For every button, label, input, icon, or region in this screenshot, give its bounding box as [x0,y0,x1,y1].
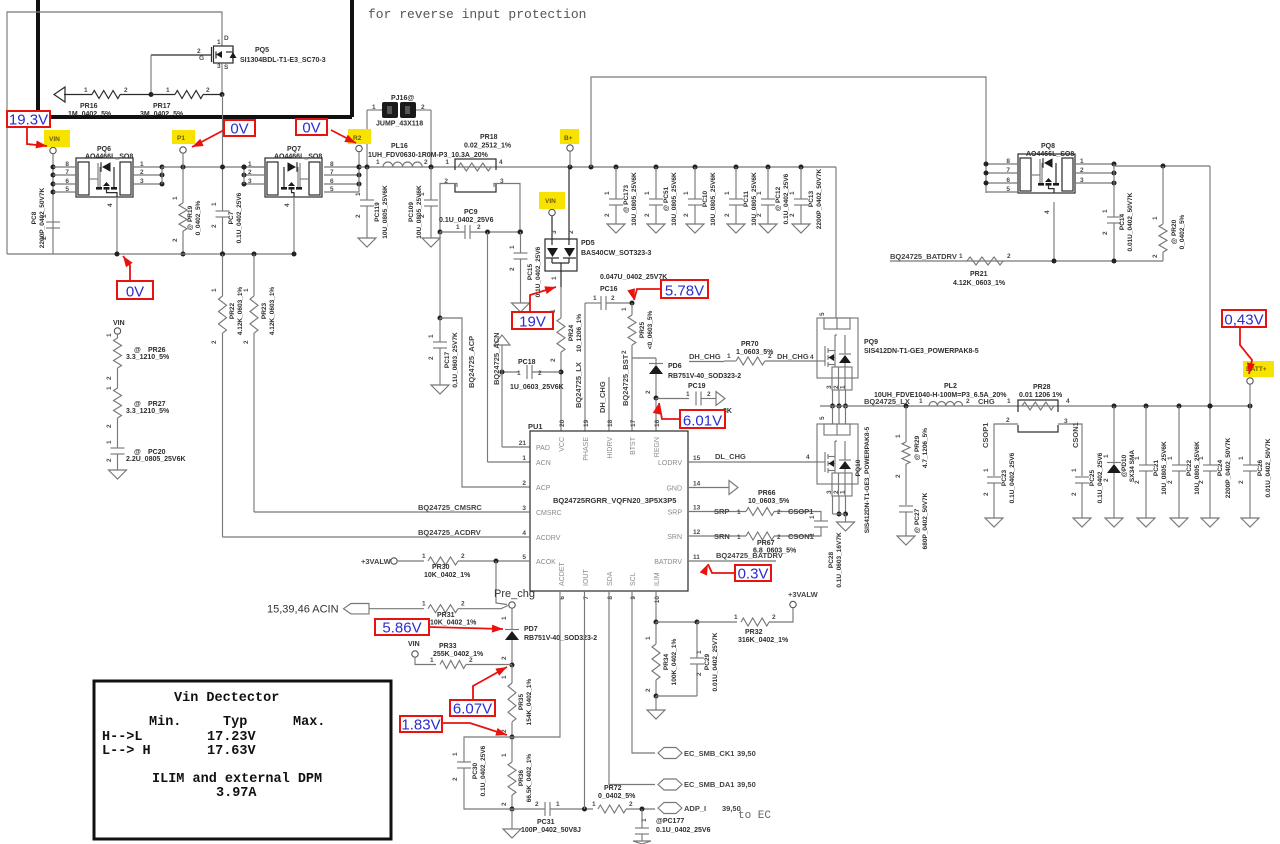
svg-text:SRN: SRN [714,532,730,541]
svg-text:PC13: PC13 [808,190,815,207]
svg-text:1: 1 [809,515,816,519]
svg-text:ADP_I: ADP_I [684,804,706,813]
callout 0.3V [735,565,771,581]
svg-text:BQ24725_BATDRV: BQ24725_BATDRV [890,252,957,261]
callout 6.07V [450,700,495,716]
svg-text:PC17: PC17 [444,351,451,368]
svg-text:ILIM and external DPM: ILIM and external DPM [152,772,322,787]
svg-text:AO4466L_SO8: AO4466L_SO8 [85,154,133,161]
svg-text:2: 2 [106,424,113,428]
svg-text:1: 1 [621,307,628,311]
svg-text:VIN: VIN [545,198,556,205]
svg-text:PR17: PR17 [153,103,171,110]
wire IOUT riser [582,807,587,812]
svg-text:@ PR20: @ PR20 [1171,219,1178,244]
svg-text:SDA: SDA [607,571,614,586]
svg-text:1: 1 [604,191,611,195]
svg-text:SI1304BDL-T1-E3_SC70-3: SI1304BDL-T1-E3_SC70-3 [240,57,326,64]
svg-text:PC24: PC24 [1217,459,1224,476]
svg-text:PC14: PC14 [1119,213,1126,230]
callout 19V [512,312,553,329]
diode PD5 BAS40CW [545,239,577,271]
svg-text:PC21: PC21 [1153,459,1160,476]
svg-text:PC30: PC30 [472,762,479,779]
diode PD10 column [1112,404,1117,409]
svg-text:<0_0603_5%: <0_0603_5% [647,311,654,350]
transistor PQ6 AO4466L_SO8 [76,158,133,197]
svg-text:0,1U_0603_25V7K: 0,1U_0603_25V7K [452,332,459,388]
svg-text:1: 1 [696,650,703,654]
svg-text:CMSRC: CMSRC [536,510,562,517]
resistor PR26 [114,338,122,368]
resistor PR22 column to ACDRV [220,252,225,257]
svg-text:SRP: SRP [714,507,729,516]
svg-text:1: 1 [1134,456,1141,460]
svg-text:0.1U_0402_25V6: 0.1U_0402_25V6 [1097,452,1104,503]
svg-text:@ PC27: @ PC27 [914,508,921,533]
svg-text:2200P_0402_50V7K: 2200P_0402_50V7K [39,188,46,249]
svg-text:H-->L: H-->L [102,730,143,745]
svg-text:2: 2 [509,267,516,271]
resistor PR28 sense [1018,400,1058,432]
svg-text:0.02_2512_1%: 0.02_2512_1% [464,143,512,150]
svg-text:10K_0402_1%: 10K_0402_1% [424,572,471,579]
svg-text:10_0603_5%: 10_0603_5% [748,498,790,505]
svg-text:18: 18 [607,419,614,427]
op-amp U1 charger IC PU1 BQ24725 [530,431,688,591]
transistor PQ5 [214,46,234,63]
svg-text:SRP: SRP [668,510,683,517]
svg-text:1: 1 [1152,216,1159,220]
resistor PR16 [64,94,92,96]
resistor PR17 [149,92,154,97]
svg-text:7: 7 [330,169,334,176]
svg-text:3: 3 [217,63,221,70]
wire VCC column PD5 to PU1 [560,287,562,318]
svg-text:4: 4 [810,354,814,361]
svg-text:@ PC12: @ PC12 [775,186,782,211]
svg-text:1M_0402_5%: 1M_0402_5% [68,111,112,118]
svg-text:2: 2 [724,213,731,217]
svg-text:@ PC51: @ PC51 [663,186,670,211]
callout 19.3V [7,111,50,127]
resistor PR67 row SRN [688,535,746,537]
capacitor PC30 loop [464,737,512,762]
svg-text:2: 2 [621,350,628,354]
svg-text:1: 1 [919,398,923,405]
svg-text:PD5: PD5 [581,240,595,247]
resistor PR29 column [904,404,909,409]
svg-text:2: 2 [421,104,425,111]
svg-text:SIS412DN-T1-GE3_POWERPAK8-5: SIS412DN-T1-GE3_POWERPAK8-5 [864,348,979,355]
svg-text:0.1U_0402_25V6: 0.1U_0402_25V6 [480,745,487,796]
svg-text:13: 13 [693,505,701,512]
svg-text:4: 4 [499,159,503,166]
callout 0,43V [1222,310,1266,327]
svg-text:154K_0402_1%: 154K_0402_1% [526,678,533,725]
net label CMSRC [254,511,530,513]
capacitor PC24 column [1208,404,1213,409]
capacitor PC17 column [439,232,441,318]
svg-text:RB751V-40_SOD323-2: RB751V-40_SOD323-2 [668,373,741,380]
svg-text:1: 1 [551,276,558,280]
svg-text:REGN: REGN [654,437,661,457]
svg-text:P1: P1 [177,135,185,142]
resistor PR31 row [369,608,424,610]
svg-text:2: 2 [501,802,508,806]
svg-text:3M_0402_5%: 3M_0402_5% [140,111,184,118]
svg-text:CSOP1: CSOP1 [981,423,990,448]
svg-text:4: 4 [522,530,526,537]
svg-text:PR25: PR25 [639,321,646,338]
svg-text:2200P_0402_50V7K: 2200P_0402_50V7K [1225,438,1232,499]
svg-text:to EC: to EC [738,810,771,822]
svg-text:0.1U_0603_16V7K: 0.1U_0603_16V7K [836,532,843,588]
svg-text:1: 1 [683,191,690,195]
svg-text:1: 1 [166,87,170,94]
svg-text:SX34 SMA: SX34 SMA [1129,450,1136,482]
net label ACDRV [223,536,531,538]
svg-text:1.83V: 1.83V [401,717,440,734]
ground ILIM [655,696,657,710]
capacitor PC177 column [640,807,645,812]
svg-text:2: 2 [966,398,970,405]
node BATT+ riser [1247,378,1253,384]
svg-text:PL2: PL2 [944,383,957,390]
svg-text:1: 1 [1102,209,1109,213]
svg-text:2: 2 [611,295,615,302]
svg-text:6.07V: 6.07V [453,701,492,718]
svg-text:2: 2 [1080,167,1084,174]
svg-text:2: 2 [477,224,481,231]
svg-text:0V: 0V [230,121,248,138]
wire REGN riser [655,398,657,431]
svg-text:1: 1 [422,553,426,560]
capacitor PC22 column [1177,404,1182,409]
svg-text:10U_0805_25V6K: 10U_0805_25V6K [1161,441,1168,495]
svg-text:0.1U_0402_25V6: 0.1U_0402_25V6 [1009,452,1016,503]
svg-text:2: 2 [206,87,210,94]
svg-text:2: 2 [211,340,218,344]
svg-text:PC18: PC18 [518,359,536,366]
svg-text:4.7_1206_5%: 4.7_1206_5% [922,428,929,468]
svg-text:PQ8: PQ8 [1041,143,1055,150]
svg-text:1UH_FDV0630-1R0M-P3_10.3A_20%: 1UH_FDV0630-1R0M-P3_10.3A_20% [368,152,489,159]
svg-text:BQ24725_CMSRC: BQ24725_CMSRC [418,503,482,512]
svg-text:1: 1 [1198,456,1205,460]
svg-text:B+: B+ [564,135,573,142]
svg-text:1: 1 [106,333,113,337]
svg-text:1: 1 [592,801,596,808]
svg-text:PC9: PC9 [464,209,478,216]
svg-text:2: 2 [243,340,250,344]
svg-text:PR30: PR30 [432,564,450,571]
svg-text:PC20: PC20 [148,449,166,456]
svg-text:2: 2 [461,601,465,608]
svg-text:BQ24725_ACP: BQ24725_ACP [467,336,476,388]
svg-text:4: 4 [1066,398,1070,405]
svg-text:3: 3 [522,505,526,512]
resistor PR32 row [697,621,737,623]
svg-text:PR21: PR21 [970,271,988,278]
svg-text:Typ: Typ [223,715,247,730]
svg-text:PC10: PC10 [702,190,709,207]
svg-text:5: 5 [522,554,526,561]
svg-text:1: 1 [243,288,250,292]
svg-text:21: 21 [519,440,527,447]
svg-text:PD6: PD6 [668,363,682,370]
svg-text:PR67: PR67 [757,540,775,547]
svg-text:PC15: PC15 [527,263,534,280]
svg-text:BTST: BTST [630,436,637,455]
svg-text:PC22: PC22 [1186,459,1193,476]
svg-text:Pre_chg: Pre_chg [494,588,535,600]
capacitor PC173 column [614,165,619,170]
svg-text:2: 2 [197,48,201,55]
svg-text:1: 1 [789,191,796,195]
net port EC_SMB_CK1 [658,748,682,759]
svg-text:8: 8 [65,161,69,168]
net arrow GND pin14 [688,487,729,489]
svg-text:6.01V: 6.01V [683,413,722,430]
jumper PJ16 [366,110,368,167]
svg-text:SRN: SRN [667,534,682,541]
svg-text:2.2U_0805_25V6K: 2.2U_0805_25V6K [126,456,186,463]
ground PQ10 source [832,496,834,514]
wire PAD riser [501,372,503,447]
svg-text:17: 17 [630,419,637,427]
svg-text:2: 2 [1152,254,1159,258]
resistor PR20 column [1162,166,1164,224]
capacitor PC51 column [654,165,659,170]
svg-text:PC23: PC23 [1001,469,1008,486]
svg-text:ACDET: ACDET [559,562,566,586]
wire PQ5 gate to divider [150,55,152,95]
svg-text:2: 2 [1198,480,1205,484]
svg-text:@ PR19: @ PR19 [187,205,194,230]
svg-text:1: 1 [641,818,648,822]
node R2 column [356,145,362,151]
svg-text:5: 5 [65,186,69,193]
svg-text:GND: GND [666,486,682,493]
svg-text:6: 6 [1006,177,1010,184]
wire PQ8 source / BATDRV row [1053,202,1055,261]
svg-text:2: 2 [140,169,144,176]
svg-text:2: 2 [1103,478,1110,482]
svg-text:2: 2 [538,370,542,377]
svg-text:680P_0402_50V7K: 680P_0402_50V7K [922,492,929,549]
inductor PL16 [383,162,422,167]
svg-text:10U_0805_25V6K: 10U_0805_25V6K [1194,441,1201,495]
svg-text:ACP: ACP [536,485,551,492]
svg-text:ILIM: ILIM [654,572,661,586]
resistor PR23 column to CMSRC [252,252,257,257]
svg-text:PR28: PR28 [1033,384,1051,391]
svg-text:2: 2 [424,159,428,166]
svg-text:9: 9 [630,596,637,600]
wire BTST riser [631,358,633,431]
svg-text:BQ24725_ACDRV: BQ24725_ACDRV [418,528,481,537]
svg-text:2: 2 [124,87,128,94]
wire PR18 sense pin2 [440,184,457,233]
svg-text:PR66: PR66 [758,490,776,497]
highlight R2 [348,129,371,144]
svg-text:2: 2 [777,534,781,541]
svg-text:1: 1 [106,440,113,444]
svg-text:5.86V: 5.86V [382,620,421,637]
svg-text:PR31: PR31 [437,612,455,619]
frame thick box [36,0,40,117]
svg-text:R2: R2 [353,135,362,142]
svg-text:2: 2 [772,614,776,621]
svg-text:10K_0402_1%: 10K_0402_1% [430,620,477,627]
bottom 0V rail [7,253,294,255]
svg-text:5: 5 [819,416,826,420]
svg-text:S: S [224,64,229,71]
svg-text:1: 1 [84,87,88,94]
capacitor PC12 column [766,165,771,170]
svg-text:10UH_FDVE1040-H-100M=P3_6.5A_2: 10UH_FDVE1040-H-100M=P3_6.5A_20% [874,392,1007,399]
svg-text:3: 3 [551,230,558,234]
net arrow PAD up [494,335,510,345]
capacitor PC23 column [987,476,1001,478]
svg-text:39,50: 39,50 [737,780,756,789]
svg-text:6: 6 [65,178,69,185]
svg-text:PHASE: PHASE [583,437,590,461]
svg-text:19V: 19V [519,314,546,331]
svg-text:PC19: PC19 [688,383,706,390]
svg-text:10U_0805_25V6K: 10U_0805_25V6K [710,172,717,226]
svg-text:1: 1 [501,675,508,679]
svg-text:1: 1 [556,801,560,808]
svg-text:2: 2 [895,474,902,478]
svg-text:@ PC173: @ PC173 [623,185,630,213]
wire ACP riser [440,318,530,487]
svg-text:5: 5 [1006,186,1010,193]
svg-text:1: 1 [430,657,434,664]
wire CSON1 from PR28 [1058,424,1082,476]
svg-text:PR23: PR23 [261,302,268,319]
svg-text:2: 2 [604,213,611,217]
svg-text:20: 20 [559,419,566,427]
svg-text:2: 2 [535,801,539,808]
svg-text:1: 1 [959,253,963,260]
resistor PR25 column [631,303,633,315]
svg-text:PC25: PC25 [1089,469,1096,486]
svg-text:5: 5 [819,312,826,316]
svg-text:2: 2 [428,356,435,360]
svg-text:10U_0805_25V6K: 10U_0805_25V6K [416,185,423,239]
resistor PR34 column [655,622,657,644]
svg-text:PC8: PC8 [31,211,38,224]
svg-text:16: 16 [654,419,661,427]
svg-text:2: 2 [707,391,711,398]
wire CSOP1 from PR28 [994,424,1018,476]
net port EC_SMB_DA1 [658,779,682,790]
svg-text:8: 8 [607,596,614,600]
wire ACOK to Pre_chg [496,561,507,605]
capacitor PC109 column [429,165,434,170]
svg-text:@: @ [134,401,141,408]
svg-text:17.63V: 17.63V [207,744,257,759]
svg-text:@PD10: @PD10 [1121,454,1128,477]
svg-text:10: 10 [654,596,661,604]
svg-text:HIDRV: HIDRV [607,437,614,459]
capacitor PC9 row [438,230,443,235]
svg-text:AO4466L_SO8: AO4466L_SO8 [1026,151,1074,158]
callout 5.86V [375,619,429,635]
svg-text:316K_0402_1%: 316K_0402_1% [738,637,789,644]
svg-text:1: 1 [644,191,651,195]
svg-text:2: 2 [629,801,633,808]
svg-text:PR70: PR70 [741,341,759,348]
svg-text:1: 1 [1103,454,1110,458]
node B+ riser [568,165,573,170]
svg-text:3: 3 [826,385,833,389]
capacitor PC21 column [1144,404,1149,409]
svg-text:0.047U_0402_25V7K: 0.047U_0402_25V7K [600,274,667,281]
highlight B+ [560,129,579,144]
svg-text:1: 1 [501,616,508,620]
diode PD6 [655,358,657,365]
svg-text:2: 2 [1167,480,1174,484]
wires PQ9 to LX rail [832,390,834,406]
svg-text:PL16: PL16 [391,143,408,150]
capacitor PC29 column [656,621,697,623]
svg-text:BATDRV: BATDRV [654,559,682,566]
input arrow left [54,87,65,102]
svg-text:@ PR29: @ PR29 [914,435,921,460]
svg-text:PR27: PR27 [148,401,166,408]
svg-text:4.12K_0603_1%: 4.12K_0603_1% [269,287,276,336]
svg-text:0.1U_0402_25V6: 0.1U_0402_25V6 [236,192,243,243]
svg-text:EC_SMB_CK1: EC_SMB_CK1 [684,749,734,758]
svg-text:L--> H: L--> H [102,744,151,759]
svg-text:1: 1 [734,614,738,621]
svg-text:BQ24725RGRR_VQFN20_3P5X3P5: BQ24725RGRR_VQFN20_3P5X3P5 [553,496,676,505]
svg-text:11: 11 [693,554,700,561]
svg-text:10U_0805_25V6K: 10U_0805_25V6K [382,185,389,239]
svg-text:1: 1 [106,386,113,390]
svg-text:6: 6 [330,178,334,185]
callout 5.78V [661,280,708,298]
svg-text:CSOP1: CSOP1 [788,507,813,516]
svg-text:2: 2 [452,777,459,781]
callout 0V bottom [117,281,153,299]
svg-text:5.78V: 5.78V [665,283,704,300]
svg-text:PU1: PU1 [528,422,543,431]
svg-text:10_1206_1%: 10_1206_1% [576,314,583,353]
svg-text:ACN: ACN [536,460,551,467]
node P1 column / resistor PR19 [180,147,186,153]
svg-text:1: 1 [1071,468,1078,472]
svg-text:1: 1 [724,191,731,195]
capacitor PC8 [46,221,60,223]
svg-text:1: 1 [372,104,376,111]
capacitor PC19 row [656,398,689,400]
rail between PQ6 and PQ7 [162,166,265,168]
svg-text:10U_0805_25V6K: 10U_0805_25V6K [631,172,638,226]
svg-text:0V: 0V [302,120,320,137]
svg-text:AO4466L_SO8: AO4466L_SO8 [274,154,322,161]
svg-text:3.3_1210_5%: 3.3_1210_5% [126,408,170,415]
svg-text:1: 1 [217,39,221,46]
svg-text:D: D [224,35,229,42]
svg-text:PR72: PR72 [604,785,622,792]
svg-text:PC119: PC119 [374,202,381,222]
svg-text:17.23V: 17.23V [207,730,257,745]
highlight VIN mid [539,192,565,209]
